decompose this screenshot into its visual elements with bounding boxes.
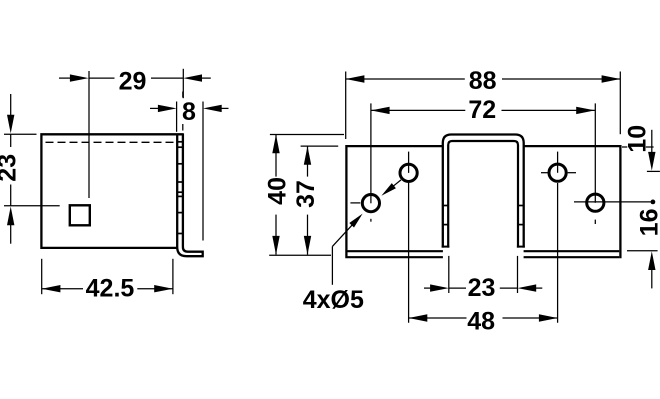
dimension 8	[176, 102, 178, 132]
svg-text:72: 72	[468, 96, 496, 124]
front view right wing bottom edge	[524, 256, 620, 258]
channel right leg end cap	[517, 246, 525, 248]
dimension 23 (front view)	[448, 256, 450, 293]
svg-text:29: 29	[119, 68, 147, 96]
dimension 37	[301, 145, 339, 147]
svg-text:88: 88	[469, 67, 497, 95]
dimension 40	[270, 134, 344, 136]
dimension 29	[88, 71, 90, 198]
svg-text:42.5: 42.5	[86, 274, 135, 302]
dimension 16	[627, 250, 658, 252]
leader line for 4xO5	[331, 246, 333, 284]
svg-text:37: 37	[292, 180, 320, 208]
leader tail to hole 2	[393, 180, 401, 187]
channel left leg end cap	[442, 246, 450, 248]
dimension 72	[371, 107, 390, 114]
dimension 10	[622, 146, 627, 148]
square hole	[70, 205, 90, 225]
leader arrowhead at hole 1 lower edge	[349, 214, 362, 228]
dimension 48	[409, 314, 428, 321]
side view hidden bend line (dashed)	[46, 141, 176, 143]
svg-text:23: 23	[0, 154, 21, 182]
front view right wing bottom bend line	[524, 250, 620, 252]
svg-text:10: 10	[624, 125, 652, 153]
front view left wing bottom edge	[348, 256, 443, 258]
front view left wing outline	[346, 146, 443, 258]
hole 3 centerlines	[557, 152, 559, 173]
svg-text:4xØ5: 4xØ5	[303, 286, 364, 314]
svg-text:48: 48	[467, 308, 495, 336]
hole 1	[362, 195, 379, 212]
svg-text:16: 16	[635, 208, 660, 236]
channel inner outline	[448, 141, 518, 248]
svg-text:40: 40	[263, 177, 291, 205]
side view flange and foot outline	[177, 134, 203, 257]
hole 4 centerlines	[594, 103, 596, 202]
flange bend tick marks	[177, 141, 184, 143]
dimension 23 (side view)	[4, 133, 37, 135]
hole 4	[587, 194, 604, 211]
hole 1 centerlines	[370, 103, 372, 203]
channel outer outline	[443, 135, 524, 248]
hole 3	[549, 164, 566, 181]
dimension 88	[345, 72, 347, 140]
hole 2 centerlines	[408, 152, 410, 173]
svg-text:8: 8	[182, 98, 196, 126]
side view body outline	[41, 134, 183, 248]
leader arrowhead at hole 1 upper edge	[381, 183, 396, 196]
dimension 42.5	[41, 259, 43, 294]
front view right wing outline	[524, 146, 621, 258]
dimension 16 origin dot	[651, 200, 656, 205]
channel bend tick marks	[443, 205, 448, 207]
front view left wing bottom bend line	[348, 250, 443, 252]
hole 2	[400, 164, 417, 181]
svg-text:23: 23	[468, 274, 496, 302]
